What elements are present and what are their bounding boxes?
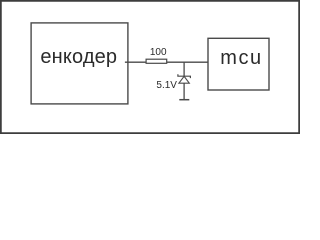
wire resistor to mcu: [167, 61, 208, 63]
wire zener branch: [183, 62, 185, 76]
wire encoder to resistor: [125, 61, 146, 63]
svg-text:100: 100: [150, 47, 167, 58]
ground: [179, 99, 189, 101]
mcu block: [208, 38, 269, 90]
svg-text:енкодер: енкодер: [40, 46, 117, 68]
svg-text:5.1V: 5.1V: [156, 80, 177, 91]
encoder block: [31, 23, 128, 104]
zener diode 5.1V: [178, 74, 191, 99]
resistor 100: [146, 59, 167, 63]
label 5.1V: [156, 80, 177, 91]
label 100: [150, 47, 167, 58]
svg-text:mcu: mcu: [220, 47, 262, 69]
